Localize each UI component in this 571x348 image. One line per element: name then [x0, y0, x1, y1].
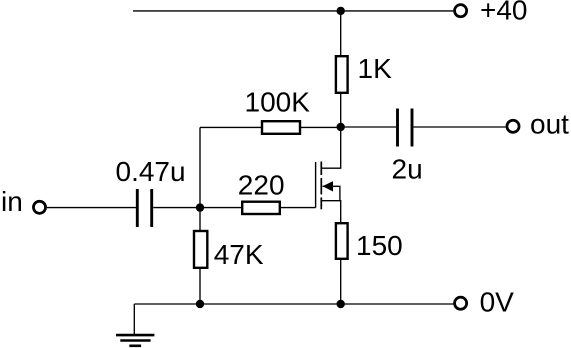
- svg-text:+40: +40: [480, 0, 528, 26]
- wire gate node to R 220: [200, 207, 242, 209]
- node bottom-left junction: [196, 300, 204, 308]
- node drain junction: [337, 123, 345, 131]
- transistor Q1 channel dashes: [320, 162, 322, 210]
- terminal out: [507, 120, 519, 132]
- node junction top (drain branch off +40 rail): [337, 7, 345, 15]
- wire C 0.47u to gate node: [153, 207, 200, 209]
- resistor 100K: [262, 121, 300, 134]
- wire R 220 to gate of Q1: [281, 207, 316, 209]
- wire gate node to R 47K: [199, 208, 201, 231]
- svg-text:0.47u: 0.47u: [116, 156, 186, 187]
- svg-text:0V: 0V: [480, 287, 515, 318]
- terminal 0V: [455, 297, 467, 309]
- svg-text:in: in: [1, 186, 23, 217]
- terminal +40: [455, 5, 467, 17]
- node source-bottom junction: [337, 300, 345, 308]
- resistor 1K: [336, 56, 348, 93]
- wire left lead of R 100K: [200, 126, 262, 128]
- transistor Q1 source lead: [321, 201, 340, 222]
- wire from top rail to R 1K: [340, 11, 342, 56]
- wire top supply rail: [133, 10, 453, 12]
- wire C 2u to out terminal: [414, 126, 506, 128]
- svg-text:150: 150: [356, 230, 403, 261]
- svg-text:2u: 2u: [392, 154, 423, 185]
- wire R 150 to bottom rail: [340, 259, 342, 304]
- transistor Q1 MOSFET gate plate: [315, 162, 317, 208]
- wire gate node up-leg to R 100K: [199, 127, 201, 207]
- transistor Q1 drain lead: [321, 127, 340, 168]
- capacitor 0.47u: [137, 189, 151, 227]
- resistor 220: [242, 202, 280, 214]
- capacitor 2u: [398, 109, 413, 147]
- transistor Q1 body arrow: [323, 181, 334, 191]
- svg-text:100K: 100K: [245, 87, 311, 118]
- svg-text:1K: 1K: [358, 53, 393, 84]
- node gate junction: [196, 203, 204, 211]
- resistor 150: [336, 223, 348, 259]
- ground symbol: [116, 335, 154, 346]
- wire drain node to C 2u: [341, 126, 396, 128]
- svg-text:220: 220: [238, 169, 285, 200]
- wire in terminal to C 0.47u: [47, 207, 136, 209]
- wire from R 1K to drain node: [340, 93, 342, 127]
- terminal in: [33, 201, 45, 213]
- wire R 47K to bottom rail: [199, 268, 201, 304]
- wire right lead of R 100K to drain node: [300, 126, 341, 128]
- wire bottom 0V rail: [134, 303, 453, 305]
- svg-text:47K: 47K: [214, 239, 264, 270]
- wire down-leg to ground: [133, 304, 135, 334]
- svg-text:out: out: [530, 109, 569, 140]
- resistor 47K: [194, 231, 207, 268]
- transistor Q1 body lead: [323, 186, 340, 200]
